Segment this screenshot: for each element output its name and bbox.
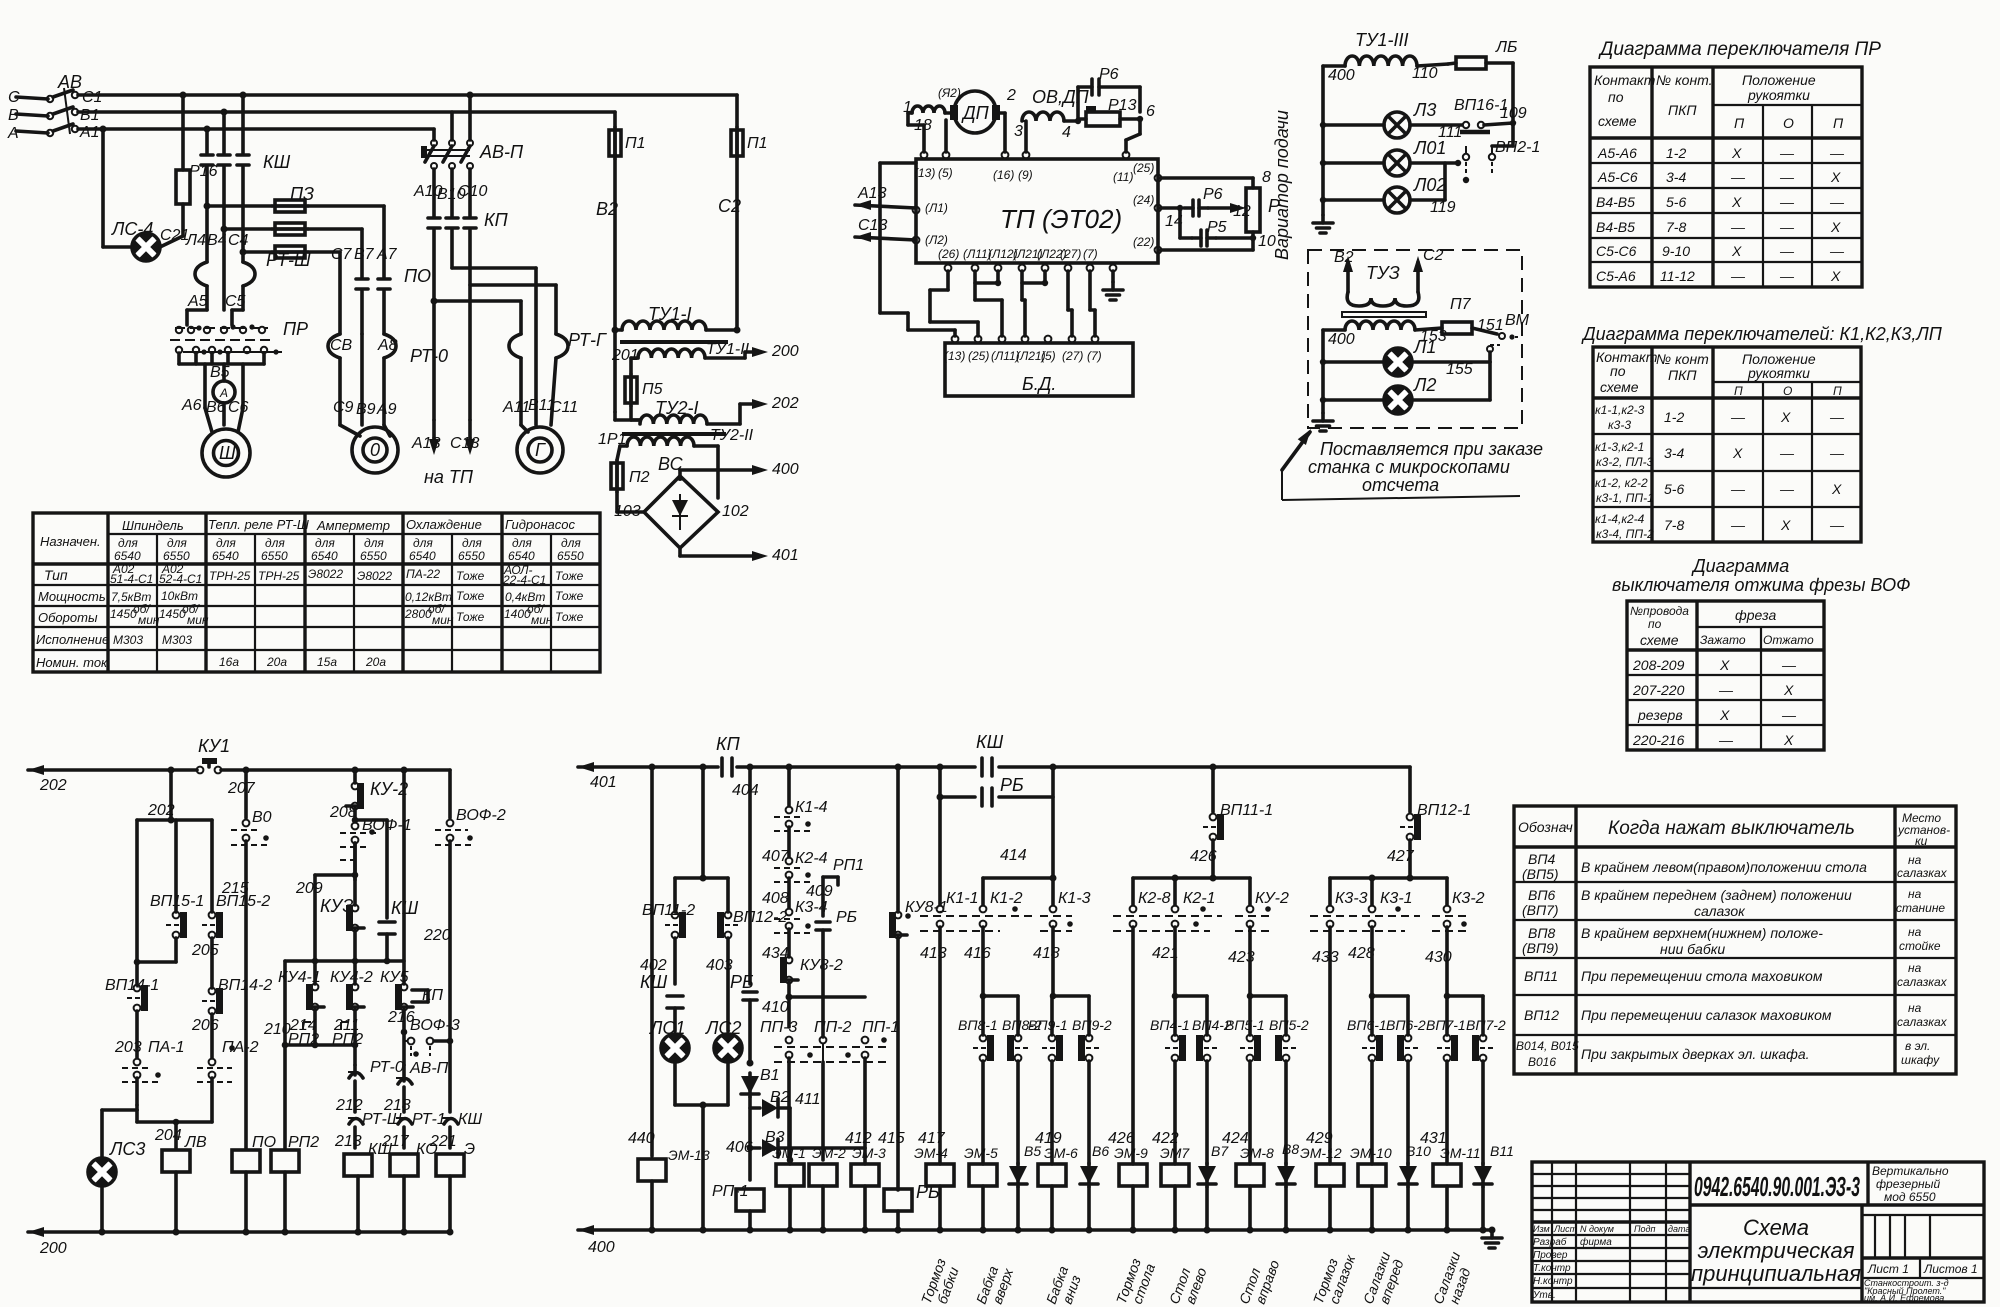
svg-text:К1-1: К1-1 (946, 890, 979, 907)
svg-text:—: — (1730, 268, 1746, 284)
svg-text:С13: С13 (858, 217, 887, 234)
svg-text:—: — (1829, 409, 1845, 425)
transformer ТУЗ (1323, 247, 1447, 413)
svg-text:109: 109 (1500, 105, 1527, 122)
svg-text:16а: 16а (219, 655, 239, 669)
svg-text:С5-С6: С5-С6 (1596, 243, 1637, 259)
contactor ПО coil (232, 1134, 276, 1236)
svg-text:ПП-3: ПП-3 (760, 1019, 798, 1036)
РП1 and РБ branch (816, 857, 864, 1037)
svg-text:ВП12: ВП12 (1524, 1007, 1559, 1023)
svg-text:К2-1: К2-1 (1183, 890, 1216, 907)
svg-text:Р6: Р6 (1099, 66, 1119, 83)
contactor КШ (3 poles) (201, 95, 291, 252)
svg-text:Исполнение: Исполнение (36, 632, 109, 647)
rectifier ВС (614, 454, 799, 564)
svg-text:408: 408 (762, 890, 789, 907)
contact ВП15-1 (150, 820, 204, 962)
svg-text:ЭМ-5: ЭМ-5 (964, 1145, 998, 1161)
svg-text:для: для (315, 536, 335, 550)
svg-text:404: 404 (732, 782, 759, 799)
svg-text:Лист 1: Лист 1 (1867, 1262, 1909, 1276)
wires to motor Г (431, 268, 557, 425)
svg-text:Э8022: Э8022 (308, 567, 343, 581)
svg-text:(7): (7) (1087, 349, 1102, 363)
svg-text:ДП: ДП (961, 103, 990, 123)
svg-text:по: по (1610, 363, 1626, 379)
svg-text:мин: мин (138, 613, 160, 627)
svg-text:—: — (1730, 409, 1746, 425)
svg-text:для: для (118, 536, 138, 550)
svg-text:КШ: КШ (458, 1111, 482, 1128)
svg-text:КУ4-2: КУ4-2 (330, 969, 373, 986)
button КУ4-1 (278, 961, 355, 1048)
svg-text:РТ-1: РТ-1 (412, 1111, 446, 1128)
svg-text:15а: 15а (317, 655, 337, 669)
ground at rail 400 end (1482, 1227, 1502, 1249)
svg-text:КУ1: КУ1 (198, 736, 230, 756)
svg-text:ЭМ-3: ЭМ-3 (852, 1145, 886, 1161)
svg-text:Х: Х (1780, 409, 1791, 425)
svg-text:(Л1): (Л1) (925, 201, 948, 215)
svg-text:выключателя отжима фрезы ВОФ: выключателя отжима фрезы ВОФ (1612, 575, 1910, 595)
svg-text:ЛБ: ЛБ (1495, 39, 1517, 56)
motor Г (hydraulic) (502, 397, 578, 473)
svg-text:221: 221 (429, 1133, 457, 1150)
contact АВ-П (383, 1060, 449, 1114)
circuit breaker AB blades (53, 72, 102, 141)
svg-text:20а: 20а (365, 655, 386, 669)
svg-text:отсчета: отсчета (1362, 475, 1439, 495)
ground at ТП (1103, 271, 1123, 300)
svg-text:6550: 6550 (458, 549, 485, 563)
svg-text:по: по (1608, 89, 1624, 105)
svg-text:418: 418 (1033, 945, 1060, 962)
svg-text:Т.контр: Т.контр (1533, 1263, 1571, 1274)
svg-text:Контакт: Контакт (1596, 349, 1658, 365)
svg-text:9-10: 9-10 (1662, 243, 1690, 259)
switch ВП11-1 (1190, 764, 1273, 879)
fuse ЛБ (1448, 39, 1517, 125)
svg-text:Зажато: Зажато (1700, 633, 1746, 647)
svg-text:51-4-С1: 51-4-С1 (110, 572, 153, 586)
svg-text:400: 400 (1328, 331, 1355, 348)
button КУ5 (380, 767, 443, 1033)
svg-text:207-220: 207-220 (1632, 682, 1685, 698)
svg-text:А6: А6 (181, 397, 202, 414)
svg-text:—: — (1730, 481, 1746, 497)
svg-text:Ш: Ш (219, 443, 236, 463)
svg-text:РБ: РБ (836, 909, 857, 926)
svg-text:—: — (1781, 657, 1797, 673)
svg-text:принципиальная: принципиальная (1691, 1261, 1861, 1286)
svg-text:Тоже: Тоже (456, 569, 485, 583)
svg-text:К3-1: К3-1 (1380, 890, 1413, 907)
svg-text:Х: Х (1830, 268, 1841, 284)
svg-text:—: — (1779, 268, 1795, 284)
table ПР diagram (1590, 39, 1881, 287)
svg-text:Диаграмма переключателя ПР: Диаграмма переключателя ПР (1598, 39, 1881, 60)
circuit breaker AB input terminals (7, 89, 53, 142)
wire phase A rail (78, 127, 434, 131)
svg-text:В8: В8 (1282, 1141, 1299, 1157)
svg-text:406: 406 (726, 1139, 753, 1156)
svg-text:В11: В11 (1490, 1143, 1514, 1159)
svg-text:для: для (561, 536, 581, 550)
ammeter A (205, 353, 243, 425)
svg-text:—: — (1779, 194, 1795, 210)
svg-text:—: — (1781, 707, 1797, 723)
svg-text:П2: П2 (629, 469, 650, 486)
svg-text:Амперметр: Амперметр (316, 518, 390, 533)
svg-text:220-216: 220-216 (1632, 732, 1685, 748)
svg-text:Х: Х (1731, 194, 1742, 210)
svg-text:мин: мин (187, 613, 209, 627)
svg-text:426: 426 (1190, 848, 1217, 865)
transformer ТУ1-III winding (1323, 30, 1448, 84)
lamp Л2 (1320, 362, 1490, 414)
switch ВОФ-1 (340, 817, 412, 880)
svg-text:В1: В1 (80, 107, 100, 124)
svg-text:(ВП5): (ВП5) (1522, 866, 1559, 882)
svg-text:5-6: 5-6 (1666, 194, 1686, 210)
svg-text:ки: ки (1915, 834, 1928, 848)
svg-text:ВП12-2: ВП12-2 (733, 909, 787, 926)
svg-text:ВП7-1: ВП7-1 (1426, 1017, 1466, 1033)
svg-text:ВП9-1: ВП9-1 (1028, 1017, 1068, 1033)
svg-text:Диаграмма переключателей: К1,К: Диаграмма переключателей: К1,К2,К3,ЛП (1581, 324, 1943, 344)
svg-text:к3-3: к3-3 (1608, 418, 1631, 432)
svg-text:151: 151 (1477, 317, 1504, 334)
svg-text:При перемещении салазок махови: При перемещении салазок маховиком (1581, 1007, 1832, 1023)
speed variator network (1161, 110, 1292, 260)
svg-text:ЭМ-6: ЭМ-6 (1044, 1145, 1078, 1161)
svg-text:С13: С13 (450, 435, 479, 452)
svg-text:на: на (1908, 925, 1922, 939)
bus wire 961 (285, 958, 404, 965)
svg-text:ТРН-25: ТРН-25 (209, 569, 251, 583)
svg-text:ПО: ПО (404, 266, 431, 286)
svg-text:ВП6-1: ВП6-1 (1347, 1017, 1387, 1033)
svg-text:(7): (7) (1083, 247, 1098, 261)
svg-text:на ТП: на ТП (424, 467, 474, 487)
contactor КО coil (390, 1141, 438, 1236)
svg-text:на: на (1908, 887, 1922, 901)
svg-text:Х: Х (1719, 707, 1730, 723)
svg-text:станка с микроскопами: станка с микроскопами (1308, 457, 1510, 477)
svg-text:Х: Х (1830, 169, 1841, 185)
svg-text:102: 102 (722, 503, 749, 520)
svg-text:ТП (ЭТ02): ТП (ЭТ02) (1000, 204, 1122, 234)
svg-text:РТ-0: РТ-0 (410, 346, 448, 366)
rail 200 bottom (28, 1227, 450, 1257)
svg-text:салазках: салазках (1897, 866, 1948, 880)
thermal relay РТ-Г (509, 330, 607, 425)
svg-text:6550: 6550 (163, 549, 190, 563)
wires ТП to БД (880, 163, 1095, 336)
svg-text:6540: 6540 (409, 549, 436, 563)
svg-text:ПП-1: ПП-1 (862, 1019, 899, 1036)
electromagnets ЭМ-4 ЭМ-5 В5 ЭМ-6 В6 (914, 1130, 1109, 1234)
svg-text:1-2: 1-2 (1666, 145, 1686, 161)
svg-text:РТ-0: РТ-0 (370, 1059, 404, 1076)
svg-text:для: для (265, 536, 285, 550)
svg-text:нии бабки: нии бабки (1660, 941, 1725, 957)
svg-text:рукоятки: рукоятки (1747, 365, 1810, 381)
transformer ТУ2-II secondary (598, 427, 754, 498)
РБ contact and diode network В1 В2 В3 (726, 764, 865, 1181)
svg-text:3-4: 3-4 (1666, 169, 1686, 185)
svg-text:Тоже: Тоже (555, 589, 584, 603)
svg-text:В0: В0 (252, 809, 272, 826)
svg-text:ЭМ-4: ЭМ-4 (914, 1145, 948, 1161)
svg-text:к1-4,к2-4: к1-4,к2-4 (1595, 512, 1645, 526)
svg-text:ПА-2: ПА-2 (222, 1039, 259, 1056)
svg-text:Обороты: Обороты (38, 610, 98, 625)
svg-text:К2-8: К2-8 (1138, 890, 1171, 907)
svg-text:Тепл. реле РТ-Ш: Тепл. реле РТ-Ш (208, 517, 309, 532)
relay РП2 coil branch (263, 961, 319, 1236)
svg-text:Провер: Провер (1533, 1250, 1568, 1261)
svg-text:416: 416 (964, 945, 991, 962)
svg-text:Х: Х (1731, 243, 1742, 259)
svg-text:к1-3,к2-1: к1-3,к2-1 (1595, 440, 1644, 454)
svg-text:в эл.: в эл. (1905, 1039, 1930, 1053)
svg-text:к3-2, ПЛ-3: к3-2, ПЛ-3 (1596, 455, 1654, 469)
block БД (944, 336, 1133, 396)
svg-text:Тоже: Тоже (555, 610, 584, 624)
svg-text:110: 110 (1412, 65, 1438, 82)
svg-text:ВП7-2: ВП7-2 (1466, 1017, 1506, 1033)
svg-text:N докум: N докум (1580, 1224, 1614, 1234)
svg-text:—: — (1730, 219, 1746, 235)
svg-text:—: — (1718, 732, 1734, 748)
svg-text:ВП11-1: ВП11-1 (1220, 802, 1273, 819)
svg-text:КШ: КШ (976, 732, 1004, 752)
svg-text:Х: Х (1732, 445, 1743, 461)
svg-text:440: 440 (628, 1130, 655, 1147)
svg-text:(13): (13) (914, 166, 935, 180)
svg-text:403: 403 (706, 957, 733, 974)
svg-text:ОВ,ДП: ОВ,ДП (1032, 87, 1090, 107)
svg-text:—: — (1829, 445, 1845, 461)
svg-text:При перемещении стола маховико: При перемещении стола маховиком (1581, 968, 1823, 984)
svg-text:для: для (216, 536, 236, 550)
svg-text:ВП11: ВП11 (1524, 968, 1558, 984)
svg-text:к3-1, ПП-1: к3-1, ПП-1 (1596, 491, 1654, 505)
svg-text:—: — (1829, 517, 1845, 533)
svg-text:(25): (25) (968, 349, 989, 363)
svg-text:ВП5-2: ВП5-2 (1269, 1017, 1309, 1033)
svg-text:на: на (1908, 961, 1922, 975)
svg-text:РБ: РБ (730, 972, 754, 992)
ground lamp circuit (1313, 215, 1333, 233)
svg-text:ВП4-1: ВП4-1 (1150, 1017, 1190, 1033)
svg-text:к1-1,к2-3: к1-1,к2-3 (1595, 403, 1645, 417)
svg-text:207: 207 (227, 780, 256, 797)
rail 400 bottom (578, 1225, 1492, 1256)
svg-text:400: 400 (1328, 67, 1355, 84)
thermal relay РТ-Ш (195, 206, 311, 310)
svg-text:Х: Х (1731, 145, 1742, 161)
svg-text:(16): (16) (993, 168, 1014, 182)
svg-text:А13: А13 (411, 435, 441, 452)
table К1 К2 К3 ЛП diagram (1581, 324, 1943, 542)
svg-text:Схема: Схема (1743, 1215, 1809, 1240)
svg-text:ТУ1-II: ТУ1-II (706, 341, 750, 358)
svg-text:—: — (1779, 445, 1795, 461)
svg-text:салазках: салазках (1897, 975, 1948, 989)
svg-text:Х: Х (1780, 517, 1791, 533)
svg-text:ЭМ-2: ЭМ-2 (812, 1145, 846, 1161)
svg-text:ПКП: ПКП (1668, 367, 1697, 383)
svg-text:для: для (413, 536, 433, 550)
wire С2 drop (718, 95, 768, 330)
svg-text:(11): (11) (1113, 170, 1133, 184)
motor Ш (spindle) (181, 397, 250, 477)
svg-text:мин: мин (432, 613, 454, 627)
svg-text:ТУ2-II: ТУ2-II (710, 427, 754, 444)
svg-text:№ конт: № конт (1656, 351, 1709, 367)
node taps on rails (180, 92, 187, 99)
contact КШ branch (352, 817, 419, 961)
svg-text:7-8: 7-8 (1666, 219, 1686, 235)
contact КШ on rail with РБ bypass (937, 732, 1057, 878)
svg-text:Р6: Р6 (1203, 186, 1223, 203)
svg-text:РП2: РП2 (332, 1031, 363, 1048)
svg-text:Лист: Лист (1553, 1224, 1578, 1234)
svg-text:КШ: КШ (640, 972, 668, 992)
svg-text:ТУЗ: ТУЗ (1366, 263, 1400, 283)
svg-text:П: П (1734, 384, 1743, 398)
damping network Р6 / Р13 (1078, 66, 1155, 152)
svg-text:200: 200 (771, 343, 799, 360)
svg-text:Р5: Р5 (1207, 219, 1227, 236)
ground option box (1313, 413, 1333, 431)
fuses ПЗ (3) (204, 184, 385, 258)
svg-text:417: 417 (918, 1130, 946, 1147)
svg-text:ЭМ-8: ЭМ-8 (1240, 1145, 1274, 1161)
svg-text:8: 8 (1262, 169, 1271, 186)
svg-text:А13: А13 (857, 185, 887, 202)
svg-text:(26): (26) (938, 247, 959, 261)
svg-text:№ конт.: № конт. (1656, 72, 1713, 88)
svg-text:резерв: резерв (1637, 707, 1683, 723)
svg-text:АВ-П: АВ-П (479, 142, 524, 162)
svg-text:ВП8-1: ВП8-1 (958, 1017, 998, 1033)
button КУ3 (295, 843, 364, 961)
svg-text:Л4: Л4 (185, 232, 206, 249)
svg-text:Э: Э (464, 1141, 475, 1158)
svg-text:С11: С11 (550, 399, 578, 416)
limit loops ВП4 ВП5 (1133, 993, 1309, 1164)
svg-text:В4-В5: В4-В5 (1596, 219, 1635, 235)
svg-text:Тоже: Тоже (456, 610, 485, 624)
electromagnets ЭМ-12 ЭМ-10 В10 ЭМ-11 В11 (1300, 1130, 1514, 1234)
svg-text:—: — (1829, 145, 1845, 161)
svg-text:К1-3: К1-3 (1058, 890, 1091, 907)
svg-text:К2-4: К2-4 (795, 850, 828, 867)
svg-text:Л02: Л02 (1413, 175, 1446, 195)
svg-text:П7: П7 (1450, 296, 1472, 313)
svg-text:6: 6 (1146, 103, 1155, 120)
reversing switch ПР (170, 293, 308, 364)
svg-text:(Л2): (Л2) (925, 233, 948, 247)
svg-text:на: на (1908, 853, 1922, 867)
svg-text:фрезерный: фрезерный (1876, 1177, 1940, 1191)
svg-text:СВ: СВ (330, 337, 353, 354)
svg-text:для: для (364, 536, 384, 550)
svg-text:Вертикально: Вертикально (1872, 1164, 1949, 1178)
svg-text:При закрытых дверках эл. шкафа: При закрытых дверках эл. шкафа. (1581, 1046, 1810, 1062)
svg-text:—: — (1779, 481, 1795, 497)
svg-text:(24): (24) (1133, 193, 1154, 207)
svg-text:411: 411 (795, 1091, 821, 1108)
svg-text:Тоже: Тоже (456, 589, 485, 603)
svg-text:ВП14-1: ВП14-1 (105, 977, 159, 994)
svg-text:—: — (1829, 243, 1845, 259)
svg-text:А11: А11 (502, 399, 530, 416)
svg-text:С1: С1 (82, 89, 102, 106)
svg-text:6540: 6540 (508, 549, 535, 563)
svg-text:А5: А5 (187, 293, 208, 310)
svg-text:фреза: фреза (1735, 607, 1776, 623)
wire phase B rail (78, 110, 615, 114)
svg-text:Номин. ток.: Номин. ток. (36, 655, 111, 670)
svg-text:208-209: 208-209 (1632, 657, 1685, 673)
svg-text:ПА-1: ПА-1 (148, 1039, 185, 1056)
svg-text:Поставляется при заказе: Поставляется при заказе (1320, 439, 1543, 459)
contact ВП15-2 (191, 820, 270, 988)
svg-text:стойке: стойке (1899, 939, 1941, 953)
svg-text:414: 414 (1000, 847, 1027, 864)
svg-text:ВП11-2: ВП11-2 (642, 902, 695, 919)
svg-text:(22): (22) (1133, 235, 1154, 249)
wires А13 С13 to ТП (411, 420, 479, 487)
svg-text:РТ-Г: РТ-Г (568, 330, 607, 350)
relay ЛВ coil (137, 1110, 212, 1236)
svg-text:Х: Х (1830, 219, 1841, 235)
transformer ТУ2-I, wire 202 (615, 395, 799, 436)
svg-text:(27): (27) (1062, 349, 1083, 363)
svg-text:202: 202 (147, 802, 175, 819)
svg-text:А1: А1 (79, 124, 100, 141)
svg-text:схеме: схеме (1600, 379, 1639, 395)
svg-text:ВП4: ВП4 (1528, 851, 1555, 867)
svg-text:6540: 6540 (212, 549, 239, 563)
svg-text:к1-2, к2-2: к1-2, к2-2 (1595, 476, 1648, 490)
svg-text:Мощность: Мощность (38, 589, 106, 604)
fuse П7 and switch ВМ (1415, 296, 1530, 340)
svg-text:А5-С6: А5-С6 (1597, 169, 1638, 185)
svg-text:427: 427 (1387, 848, 1415, 865)
svg-text:—: — (1779, 145, 1795, 161)
svg-text:—: — (1730, 517, 1746, 533)
svg-text:ТРН-25: ТРН-25 (258, 569, 300, 583)
fuse П5 (625, 374, 663, 420)
svg-text:11-12: 11-12 (1660, 268, 1695, 284)
svg-text:С5-А6: С5-А6 (1596, 268, 1636, 284)
svg-text:РП1: РП1 (833, 857, 864, 874)
svg-text:П5: П5 (642, 381, 663, 398)
svg-text:В крайнем верхнем(нижнем) поло: В крайнем верхнем(нижнем) положе- (1581, 925, 1823, 941)
svg-text:А: А (219, 386, 228, 400)
svg-text:ВОФ-2: ВОФ-2 (456, 807, 506, 824)
svg-text:шкафу: шкафу (1901, 1053, 1940, 1067)
svg-text:КП: КП (484, 210, 509, 230)
svg-text:ЭМ-1: ЭМ-1 (772, 1145, 806, 1161)
svg-text:103: 103 (614, 503, 641, 520)
